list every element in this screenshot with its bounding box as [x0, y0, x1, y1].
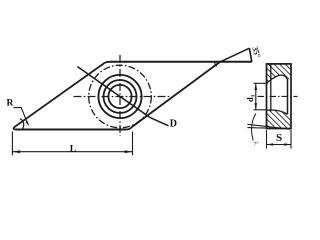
- horizontal centerline: [74, 96, 172, 98]
- d1 dimension line: [255, 83, 257, 110]
- insert top edge + 35deg extension line: [110, 61, 252, 63]
- L arrow right: [125, 150, 133, 153]
- S arrow right: [284, 143, 291, 146]
- 7deg bottom edge extension: [247, 127, 266, 130]
- D diameter line: [78, 67, 150, 118]
- L extension right: [132, 132, 134, 156]
- side view outline: [267, 64, 292, 129]
- d1 arrow down: [255, 103, 258, 110]
- S extension left: [266, 130, 268, 149]
- corner arc at top corner: [105, 62, 110, 63]
- corner arc at left tip: [14, 127, 16, 129]
- svg-text:7°: 7°: [254, 141, 259, 148]
- svg-text:D: D: [170, 119, 177, 130]
- vertical centerline: [119, 55, 121, 136]
- insert bottom edge: [16, 129, 126, 131]
- R leader line: [14, 108, 28, 124]
- nose radius arc at left tip: [20, 119, 24, 129]
- inscribed circle dash-dot: [89, 65, 152, 128]
- 7deg leader arc: [252, 114, 256, 141]
- S dimension line: [267, 144, 292, 146]
- hole circle outer: [98, 75, 141, 118]
- L arrow left: [12, 150, 20, 153]
- L dimension line: [12, 151, 132, 153]
- d1 extension bottom: [254, 109, 267, 111]
- d1 extension top: [254, 82, 267, 84]
- side view bottom hatched section: [267, 110, 292, 128]
- svg-text:S: S: [276, 132, 282, 144]
- side view transition vertical: [287, 80, 289, 115]
- angle arc at tip: [215, 63, 217, 67]
- svg-text:R: R: [7, 98, 14, 108]
- svg-text:d1: d1: [245, 94, 257, 102]
- hole circle inner: [108, 85, 131, 108]
- insert right slanted edge (35deg): [131, 62, 220, 128]
- side view hole centerline: [258, 95, 298, 97]
- side view countersink top curve: [267, 75, 288, 83]
- insert left slanted edge: [14, 63, 104, 127]
- svg-text:L: L: [70, 144, 76, 154]
- S extension right: [290, 130, 292, 149]
- R leader arrowhead: [26, 121, 30, 127]
- apex descender line: [249, 48, 251, 62]
- S arrow left: [267, 143, 274, 146]
- side view top hatched section: [267, 64, 292, 84]
- 35deg extension beyond tip to apex: [220, 48, 249, 62]
- L extension left: [11, 132, 13, 156]
- hole circle middle: [104, 80, 137, 113]
- D leader bend segment: [150, 117, 169, 125]
- side view inner left vertical: [270, 64, 272, 111]
- 7deg tilted clearance line: [247, 124, 290, 129]
- side view countersink bottom curve: [267, 110, 288, 114]
- d1 arrow up: [255, 83, 258, 90]
- corner arc at bottom corner: [126, 128, 131, 130]
- svg-text:35°: 35°: [250, 45, 262, 58]
